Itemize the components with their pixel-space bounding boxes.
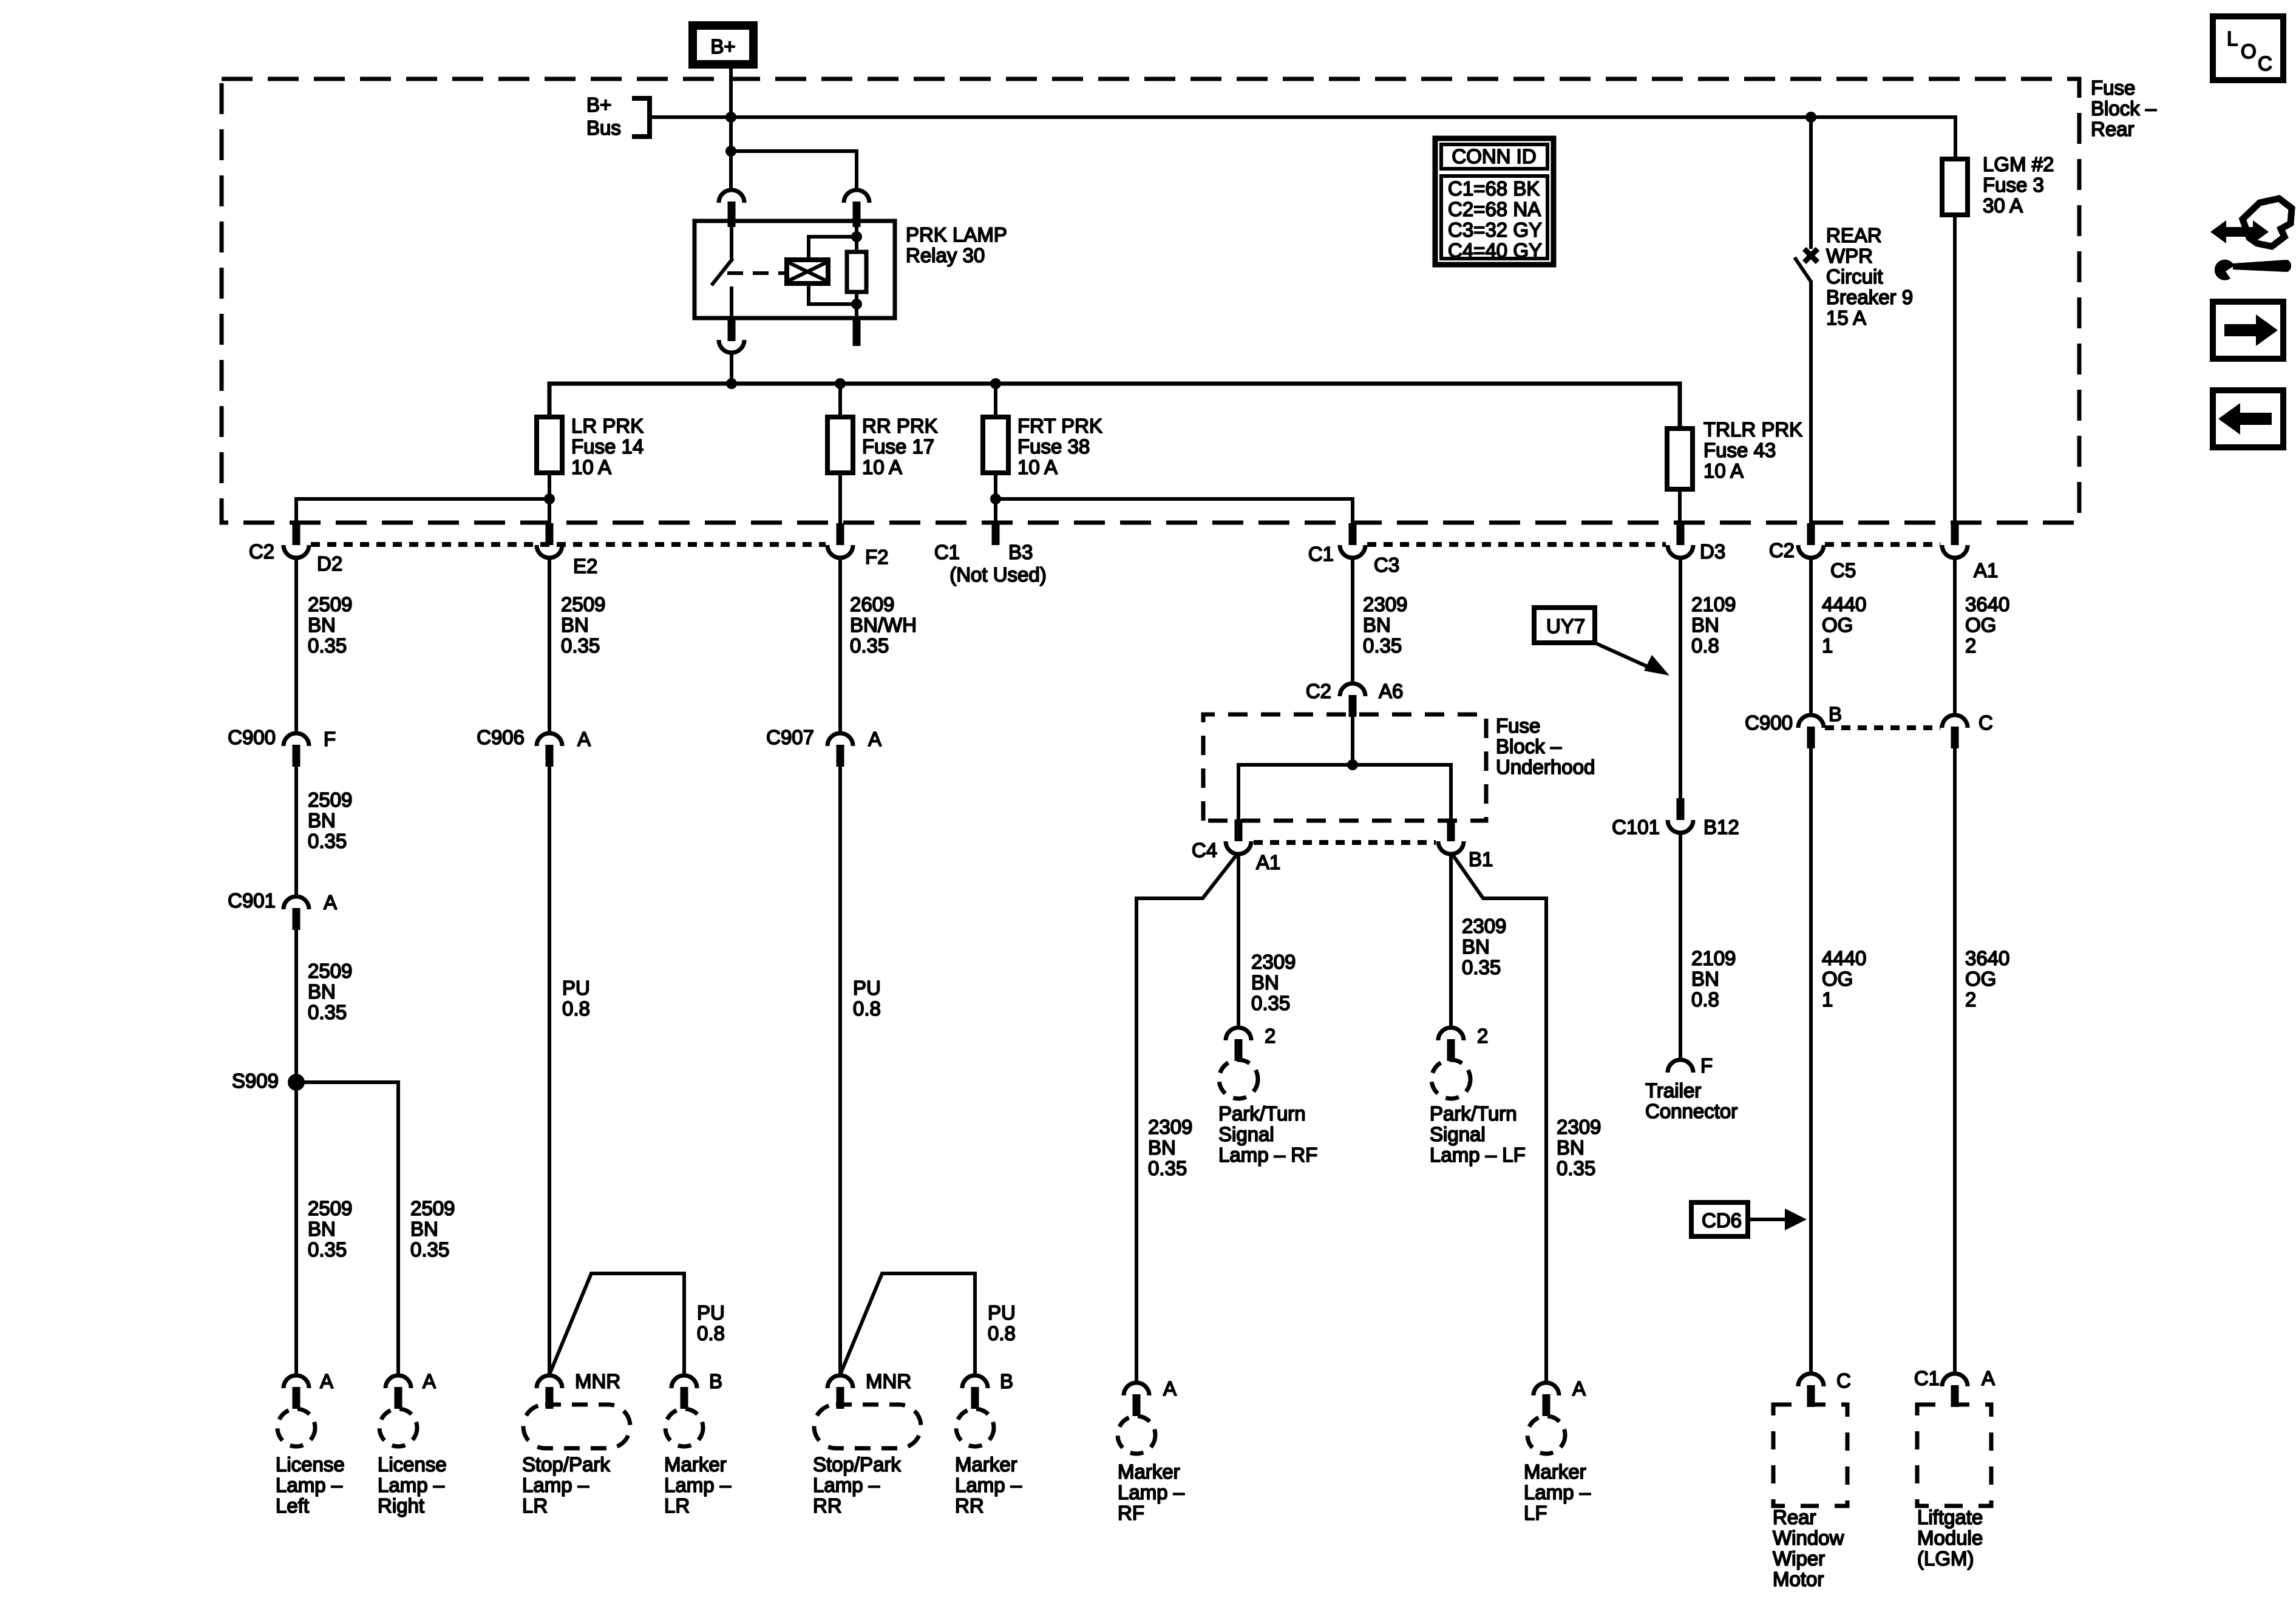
svg-text:C: C (1978, 711, 1993, 734)
svg-text:A: A (868, 728, 881, 750)
connector D3 pin (1677, 523, 1685, 545)
connector C4/A1 cup (1226, 841, 1251, 854)
label Park/Turn Signal Lamp LF (1430, 1102, 1526, 1166)
svg-text:1: 1 (1822, 634, 1833, 657)
label circuit PU 0.8 (853, 977, 881, 1020)
label circuit 2309 BN 0.35 (B1) (1462, 915, 1506, 978)
svg-text:A1: A1 (1256, 851, 1280, 873)
wire coil top to resistor (809, 237, 857, 260)
B+ Bus label (586, 93, 621, 139)
connector trailer F dome (1668, 1060, 1693, 1073)
marker lamp RF bulb (1118, 1416, 1155, 1454)
svg-text:Motor: Motor (1773, 1568, 1824, 1590)
svg-text:0.35: 0.35 (308, 1001, 347, 1023)
wire relay output to bus2 (730, 354, 733, 384)
wire below TRLR fuse (1678, 489, 1682, 524)
node FRT fuse split (990, 493, 1001, 504)
svg-text:Signal: Signal (1218, 1123, 1274, 1145)
splice S909 (288, 1074, 305, 1091)
svg-text:C2=68 NA: C2=68 NA (1448, 198, 1541, 220)
svg-text:BN: BN (410, 1218, 438, 1240)
svg-text:0.35: 0.35 (1251, 992, 1290, 1014)
svg-text:C101: C101 (1612, 816, 1660, 838)
label Marker Lamp LF (1524, 1460, 1591, 1524)
wire below FRT fuse (994, 473, 997, 524)
svg-text:C3=32 GY: C3=32 GY (1448, 219, 1542, 241)
svg-text:REAR: REAR (1826, 224, 1882, 246)
svg-text:Park/Turn: Park/Turn (1430, 1102, 1517, 1125)
svg-text:A: A (577, 728, 591, 750)
stop/park lamp RR body (814, 1405, 921, 1448)
svg-text:Block –: Block – (1496, 735, 1562, 758)
svg-text:0.8: 0.8 (562, 997, 590, 1020)
connector C2/C5 cup (1798, 545, 1824, 558)
stop/park lamp LR body (523, 1405, 630, 1448)
svg-text:Marker: Marker (664, 1453, 727, 1476)
wire below LR fuse (548, 473, 551, 524)
svg-text:3640: 3640 (1965, 947, 2009, 969)
svg-text:PU: PU (562, 977, 590, 999)
relay pin 30 pin (728, 202, 736, 227)
connector C906 pin (546, 745, 554, 767)
svg-text:2: 2 (1265, 1025, 1275, 1047)
node bus at breaker drop (1805, 112, 1816, 123)
label RR PRK Fuse 17 (862, 415, 938, 478)
svg-text:0.35: 0.35 (308, 1238, 347, 1261)
svg-text:PU: PU (697, 1301, 725, 1324)
svg-text:Circuit: Circuit (1826, 265, 1883, 288)
park/turn signal lamp RF bulb (1219, 1060, 1258, 1099)
svg-text:2309: 2309 (1251, 951, 1296, 973)
svg-text:BN: BN (1251, 971, 1279, 994)
connector marker LF pin (1543, 1394, 1550, 1416)
connector C101/B12 cup (1668, 820, 1693, 833)
park/turn signal lamp LF bulb (1432, 1060, 1470, 1099)
node coil top (851, 231, 862, 242)
svg-text:LGM #2: LGM #2 (1983, 153, 2054, 175)
label Marker Lamp LR (664, 1453, 732, 1517)
svg-text:C906: C906 (477, 726, 525, 748)
svg-text:A: A (320, 1370, 333, 1392)
svg-text:10 A: 10 A (1017, 456, 1058, 478)
connector row dotted line right (1825, 542, 1940, 547)
marker lamp RR bulb (956, 1409, 994, 1446)
connector wiper C pin (1807, 1385, 1815, 1407)
wire A1 down (1953, 558, 1957, 714)
svg-text:0.8: 0.8 (988, 1322, 1016, 1344)
svg-text:Liftgate: Liftgate (1917, 1506, 1983, 1528)
connector B1 pin (1447, 819, 1455, 841)
wire C906 down to stop/park LR (548, 767, 551, 1375)
svg-text:Bus: Bus (586, 117, 621, 139)
connector C900 dome (284, 733, 309, 746)
svg-text:Wiper: Wiper (1773, 1547, 1825, 1570)
svg-text:C4: C4 (1192, 839, 1217, 861)
connector A1 pin (1951, 523, 1959, 545)
svg-text:4440: 4440 (1822, 947, 1866, 969)
connector B3 not used pin (992, 523, 1000, 545)
svg-text:Rear: Rear (1773, 1506, 1816, 1528)
liftgate module box (1917, 1405, 1991, 1506)
svg-text:C: C (2258, 52, 2272, 75)
svg-text:Signal: Signal (1430, 1123, 1486, 1145)
connector row dotted line left (311, 542, 826, 547)
svg-text:0.35: 0.35 (1557, 1157, 1595, 1179)
fuse F43 TRLR PRK (1667, 429, 1693, 489)
label circuit 3640 OG 2 lower (1965, 947, 2009, 1011)
label circuit 4440 OG 1 lower (1822, 947, 1866, 1011)
label circuit 2309 BN 0.35 (park/turn RF) (1251, 951, 1296, 1014)
svg-text:0.35: 0.35 (1462, 956, 1501, 978)
wire B+ terminal down to relay (729, 69, 733, 189)
svg-text:WPR: WPR (1826, 245, 1873, 267)
svg-text:Right: Right (378, 1494, 424, 1517)
svg-text:C900: C900 (1745, 711, 1793, 734)
back arrow box (2213, 390, 2283, 447)
connector C dome (1942, 715, 1968, 728)
svg-text:UY7: UY7 (1546, 615, 1585, 637)
svg-text:2: 2 (1965, 634, 1976, 657)
label circuit 2309 BN 0.35 under C3 (1363, 593, 1407, 657)
relay pin 87 connector cup (719, 340, 744, 353)
connector marker RR pin (971, 1387, 979, 1409)
svg-text:Lamp – RF: Lamp – RF (1218, 1144, 1317, 1166)
relay switch blade (712, 259, 733, 285)
svg-text:FRT PRK: FRT PRK (1017, 415, 1102, 437)
connector stop/park LR pin (546, 1387, 554, 1409)
wire C900 to C901 (294, 767, 298, 895)
svg-text:Lamp –: Lamp – (1524, 1481, 1591, 1503)
svg-text:Block –: Block – (2091, 97, 2157, 120)
svg-text:10 A: 10 A (1703, 459, 1744, 482)
svg-text:RF: RF (1118, 1502, 1144, 1524)
svg-text:LR: LR (522, 1494, 548, 1517)
LOC legend box (2213, 16, 2283, 80)
svg-text:BN: BN (1363, 614, 1391, 636)
label circuit 2509 BN 0.35 (308, 960, 352, 1023)
node relay output on bus (726, 378, 737, 389)
connector C907 dome (827, 733, 853, 746)
wire C907 down to stop/park RR (838, 767, 842, 1375)
svg-text:B+: B+ (710, 35, 735, 58)
svg-text:RR PRK: RR PRK (862, 415, 938, 437)
svg-text:S909: S909 (232, 1070, 279, 1092)
svg-text:0.35: 0.35 (561, 634, 600, 657)
connector park/turn RF pin (1235, 1039, 1243, 1061)
svg-text:C900: C900 (228, 726, 276, 748)
svg-text:BN: BN (308, 980, 336, 1003)
svg-text:BN: BN (308, 614, 336, 636)
connector D3 cup (1668, 545, 1693, 558)
connector park/turn LF pin (1447, 1039, 1455, 1061)
svg-text:C2: C2 (1769, 539, 1795, 561)
svg-text:L: L (2227, 27, 2238, 50)
connector liftgate C1/A pin (1951, 1385, 1959, 1407)
svg-text:C1: C1 (1914, 1367, 1940, 1389)
svg-text:0.35: 0.35 (1363, 634, 1402, 657)
wire B+ bus horizontal (650, 115, 1955, 119)
label Marker Lamp RF (1118, 1460, 1185, 1524)
connector license left dome (284, 1375, 309, 1388)
svg-text:Fuse 3: Fuse 3 (1983, 174, 2044, 196)
svg-text:0.35: 0.35 (410, 1238, 449, 1261)
svg-text:F2: F2 (865, 546, 889, 568)
svg-text:Fuse: Fuse (1496, 714, 1540, 737)
relay pin 86 pin (853, 202, 861, 227)
svg-text:OG: OG (1965, 968, 1996, 990)
fuse F38 FRT PRK (994, 384, 997, 417)
connector C2/C5 pin (1807, 523, 1815, 545)
marker lamp LF bulb (1527, 1416, 1565, 1454)
svg-text:A: A (1982, 1367, 1995, 1389)
callout UY7 (1534, 608, 1669, 676)
label Rear Window Wiper Motor (1773, 1506, 1844, 1590)
svg-text:0.35: 0.35 (308, 830, 347, 852)
svg-text:2509: 2509 (308, 1197, 352, 1219)
svg-text:C: C (1836, 1369, 1851, 1392)
svg-text:C907: C907 (766, 726, 814, 748)
wire underhood harness (1238, 765, 1451, 821)
svg-text:Breaker 9: Breaker 9 (1826, 286, 1913, 308)
wire below RR fuse (838, 473, 842, 524)
connector F2 pin (837, 523, 844, 545)
label PRK LAMP Relay 30 (906, 223, 1007, 266)
connector license right pin (395, 1387, 402, 1409)
wrench and arrow navigation icon (2210, 198, 2292, 280)
connector marker LR pin (681, 1387, 688, 1409)
label Trailer Connector (1645, 1079, 1737, 1122)
connector row dotted line middle (1367, 542, 1666, 547)
svg-text:Rear: Rear (2091, 118, 2135, 140)
svg-text:Lamp – LF: Lamp – LF (1430, 1144, 1526, 1166)
node FRT PRK drop (990, 378, 1001, 389)
label Park/Turn Signal Lamp RF (1218, 1102, 1317, 1166)
connector license right dome (385, 1375, 411, 1388)
label License Lamp Left (276, 1453, 345, 1517)
label LGM #2 Fuse 3 (1983, 153, 2054, 217)
relay K1 PRK LAMP Relay 30 box (695, 221, 895, 318)
svg-text:A: A (1163, 1377, 1177, 1400)
svg-text:C1: C1 (1308, 543, 1334, 565)
relay coil X (789, 263, 826, 280)
wire D3 down (1679, 558, 1682, 799)
wire S909 branch to right license lamp (296, 1082, 398, 1375)
svg-text:Fuse 14: Fuse 14 (571, 435, 644, 458)
svg-text:10 A: 10 A (862, 456, 902, 478)
label REAR WPR Circuit Breaker 9 (1826, 224, 1913, 329)
connector B1 cup (1438, 841, 1464, 854)
svg-text:2509: 2509 (308, 788, 352, 811)
svg-text:PU: PU (853, 977, 881, 999)
svg-text:B: B (1829, 703, 1842, 725)
svg-text:Fuse: Fuse (2091, 76, 2135, 99)
wire A1 down to park/turn RF (1237, 854, 1240, 1026)
label circuit PU 0.8 branch (988, 1301, 1016, 1344)
svg-text:0.35: 0.35 (850, 634, 889, 657)
wire branch to marker RR (841, 1273, 975, 1375)
wire A1 branch to marker RF (1136, 854, 1237, 1383)
label Fuse Block Rear (2091, 76, 2157, 140)
svg-text:BN: BN (1148, 1136, 1176, 1159)
label Liftgate Module LGM (1917, 1506, 1983, 1570)
node RR PRK drop (835, 378, 846, 389)
wire FRT fuse to C3 connector (996, 499, 1353, 524)
node coil bottom (851, 299, 862, 310)
relay pin 30 connector dome (719, 190, 744, 203)
svg-text:3640: 3640 (1965, 593, 2009, 615)
svg-text:License: License (378, 1453, 447, 1476)
svg-text:A1: A1 (1974, 559, 1998, 581)
connector row dotted line B to C (1825, 725, 1940, 730)
connector C901 pin (293, 908, 301, 930)
relay switch lower lead (730, 286, 733, 318)
label circuit 2109 BN 0.8 (1691, 947, 1736, 1011)
svg-text:B: B (709, 1370, 722, 1392)
svg-text:2509: 2509 (308, 593, 352, 615)
label License Lamp Right (378, 1453, 447, 1517)
svg-text:CD6: CD6 (1702, 1209, 1742, 1232)
label circuit PU 0.8 (562, 977, 590, 1020)
svg-text:LR: LR (664, 1494, 690, 1517)
connector C2/D2 cup (284, 545, 309, 558)
svg-text:Underhood: Underhood (1496, 756, 1595, 778)
label circuit 2509 BN 0.35 under D2 (308, 593, 352, 657)
wire A6 into underhood split (1351, 717, 1354, 765)
svg-text:PRK LAMP: PRK LAMP (906, 223, 1007, 246)
svg-text:2: 2 (1477, 1025, 1488, 1047)
label Stop/Park Lamp RR (813, 1453, 901, 1517)
connector C2/A6 pin (1349, 695, 1357, 717)
node relay coil branch (725, 146, 736, 157)
connector C907 pin (837, 745, 844, 767)
connector C1/C3 pin (1349, 523, 1357, 545)
fuse F14 LR PRK (537, 417, 562, 473)
connector park/turn RF dome (1226, 1028, 1251, 1040)
svg-text:C2: C2 (1306, 680, 1331, 702)
svg-text:0.8: 0.8 (1691, 988, 1719, 1011)
connector stop/park RR dome (827, 1375, 853, 1388)
CONN ID table (1435, 138, 1554, 265)
svg-text:2309: 2309 (1462, 915, 1506, 937)
relay pin 86 connector dome (844, 190, 869, 203)
label LR PRK Fuse 14 (571, 415, 644, 478)
wire B1 down to park/turn LF (1449, 854, 1453, 1026)
svg-text:0.8: 0.8 (1691, 634, 1719, 657)
connector marker RR dome (962, 1375, 988, 1388)
svg-text:BN: BN (1691, 968, 1719, 990)
svg-text:Lamp –: Lamp – (522, 1474, 589, 1496)
svg-text:2309: 2309 (1363, 593, 1407, 615)
svg-text:Lamp –: Lamp – (955, 1474, 1022, 1496)
connector C900/B pin (1807, 727, 1815, 748)
svg-text:0.8: 0.8 (697, 1322, 725, 1344)
svg-text:OG: OG (1822, 968, 1853, 990)
svg-text:MNR: MNR (575, 1370, 620, 1392)
wire C down to liftgate module (1953, 748, 1957, 1372)
svg-text:4440: 4440 (1822, 593, 1866, 615)
relay pin 85 stub (853, 318, 861, 346)
connector C906 dome (537, 733, 562, 746)
connector liftgate C1/A dome (1942, 1374, 1968, 1386)
connector C2/D2 pin (293, 523, 301, 545)
wire branch to relay coil pin (731, 151, 857, 189)
svg-text:BN: BN (1462, 935, 1490, 958)
wire relay pin86 internal (855, 226, 858, 252)
svg-text:F: F (1700, 1054, 1713, 1077)
wire below LGM fuse (1953, 215, 1957, 524)
node LR fuse split (544, 493, 555, 504)
B+ terminal box (693, 25, 753, 64)
connector marker LR dome (671, 1375, 697, 1388)
B+ Bus bracket (632, 98, 650, 137)
wire D2 down (294, 558, 298, 732)
connector marker RF dome (1124, 1383, 1149, 1395)
svg-text:Marker: Marker (1118, 1460, 1180, 1483)
wire to D2 connector (296, 499, 549, 524)
relay actuation dashed link (727, 271, 784, 275)
svg-text:C3: C3 (1374, 554, 1399, 576)
svg-text:OG: OG (1965, 614, 1996, 636)
svg-text:15 A: 15 A (1826, 307, 1866, 329)
svg-text:Marker: Marker (955, 1453, 1017, 1476)
svg-text:D3: D3 (1700, 540, 1725, 563)
marker lamp LR bulb (665, 1409, 703, 1446)
svg-text:2609: 2609 (850, 593, 894, 615)
svg-text:0.35: 0.35 (1148, 1157, 1187, 1179)
svg-text:2509: 2509 (410, 1197, 455, 1219)
svg-text:OG: OG (1822, 614, 1853, 636)
svg-text:O: O (2241, 40, 2257, 63)
svg-text:PU: PU (988, 1301, 1016, 1324)
svg-text:Lamp –: Lamp – (1118, 1481, 1185, 1503)
svg-text:30 A: 30 A (1983, 194, 2023, 217)
label circuit 2609 BN/WH 0.35 under F2 (850, 593, 917, 657)
fuse F17 RR PRK (838, 384, 842, 417)
svg-text:B+: B+ (586, 93, 611, 116)
wire C5 down (1809, 558, 1813, 714)
svg-text:2309: 2309 (1557, 1116, 1601, 1138)
svg-text:0.8: 0.8 (853, 997, 881, 1020)
label circuit 4440 OG 1 under C5 (1822, 593, 1866, 657)
wire bus to breaker (1809, 117, 1813, 249)
label circuit 2509 BN 0.35 right (410, 1197, 455, 1261)
svg-text:BN: BN (1691, 614, 1719, 636)
wire C901 to S909 (294, 930, 298, 1375)
wire E2 down (548, 558, 551, 732)
svg-text:2309: 2309 (1148, 1116, 1192, 1138)
relay coil box (787, 260, 828, 283)
svg-text:B: B (1000, 1370, 1013, 1392)
connector stop/park RR pin (837, 1387, 844, 1409)
svg-text:C5: C5 (1830, 559, 1856, 581)
connector marker RF pin (1133, 1394, 1141, 1416)
svg-text:A6: A6 (1379, 680, 1403, 702)
label circuit 2309 BN 0.35 (RF marker) (1148, 1116, 1192, 1179)
connector C900 pin (293, 745, 301, 767)
svg-text:Stop/Park: Stop/Park (813, 1453, 901, 1476)
connector E2 cup (537, 545, 562, 558)
label Stop/Park Lamp LR (522, 1453, 610, 1517)
svg-text:(Not Used): (Not Used) (949, 563, 1047, 586)
svg-text:TRLR PRK: TRLR PRK (1703, 418, 1802, 441)
connector C1/C3 cup (1340, 545, 1365, 558)
svg-text:Relay 30: Relay 30 (906, 244, 985, 266)
label circuit 2309 BN 0.35 (LF marker) (1557, 1116, 1601, 1179)
svg-text:Lamp –: Lamp – (813, 1474, 880, 1496)
label Marker Lamp RR (955, 1453, 1022, 1517)
svg-text:BN: BN (308, 809, 336, 832)
svg-text:Fuse 43: Fuse 43 (1703, 439, 1776, 461)
